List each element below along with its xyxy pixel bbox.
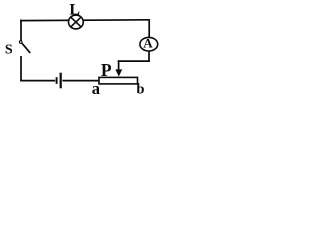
svg-text:L: L [69, 2, 80, 19]
svg-text:A: A [143, 36, 153, 51]
wire left vertical (top section to switch) [20, 20, 22, 41]
wire wiper to right vertical [118, 60, 150, 62]
switch S contact circle [19, 41, 22, 44]
rheostat wiper arrow shaft [118, 60, 120, 71]
wire bottom left (to battery) [20, 80, 55, 82]
svg-text:P: P [101, 60, 112, 80]
wire right vertical (ammeter bottom) [148, 51, 150, 62]
rheostat P body box [99, 77, 138, 84]
battery negative plate (short) [56, 77, 58, 84]
svg-text:b: b [136, 81, 144, 97]
rheostat wiper arrowhead [115, 69, 122, 76]
wire top horizontal [20, 19, 150, 22]
ammeter A [140, 36, 158, 51]
battery positive plate (tall) [60, 73, 62, 89]
svg-text:S: S [5, 43, 13, 58]
lamp L bulb circle with cross [69, 15, 84, 29]
svg-text:a: a [92, 79, 100, 98]
switch S blade [22, 43, 30, 53]
wire battery to rheostat [62, 80, 99, 82]
wire left vertical (switch to bottom) [20, 56, 22, 81]
wire right vertical (top corner to ammeter) [148, 19, 150, 37]
